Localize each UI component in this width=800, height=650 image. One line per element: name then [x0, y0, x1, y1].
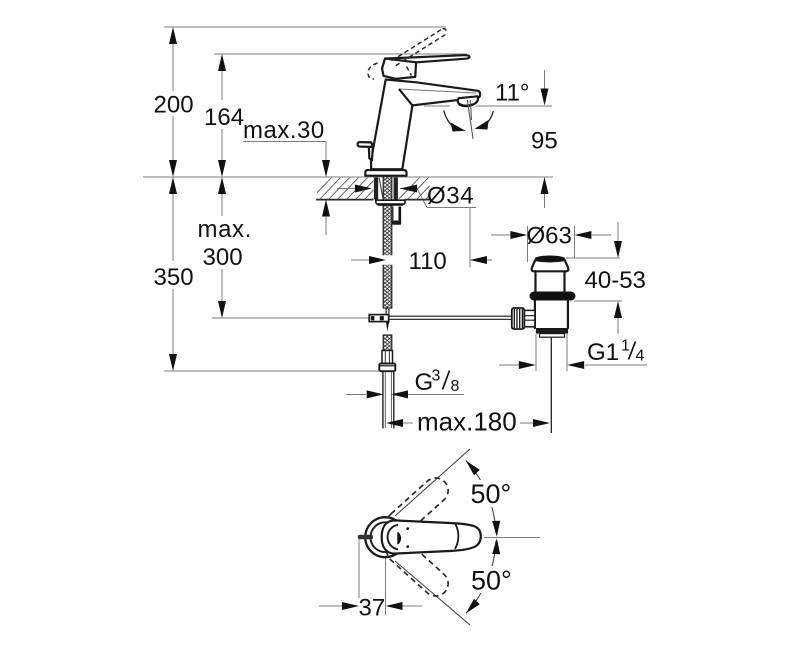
svg-text:1: 1 — [621, 338, 630, 355]
svg-text:Ø63: Ø63 — [527, 223, 572, 250]
svg-text:Ø34: Ø34 — [427, 183, 474, 210]
svg-text:4: 4 — [636, 348, 645, 365]
svg-text:11°: 11° — [495, 80, 530, 107]
svg-text:max.: max. — [198, 216, 252, 243]
svg-text:max.30: max.30 — [243, 117, 325, 144]
svg-text:50°: 50° — [471, 479, 512, 509]
svg-text:95: 95 — [531, 128, 558, 155]
svg-text:G1: G1 — [587, 339, 619, 366]
svg-text:40-53: 40-53 — [585, 267, 646, 294]
svg-text:max.180: max.180 — [417, 407, 517, 437]
svg-text:300: 300 — [203, 244, 243, 271]
svg-text:G: G — [415, 369, 434, 396]
svg-text:164: 164 — [204, 104, 244, 131]
svg-text:8: 8 — [451, 378, 460, 395]
svg-text:3: 3 — [432, 368, 441, 385]
svg-text:37: 37 — [359, 595, 386, 622]
svg-text:200: 200 — [154, 92, 194, 119]
svg-text:110: 110 — [409, 248, 447, 275]
svg-text:50°: 50° — [471, 566, 512, 596]
svg-text:350: 350 — [154, 264, 194, 291]
